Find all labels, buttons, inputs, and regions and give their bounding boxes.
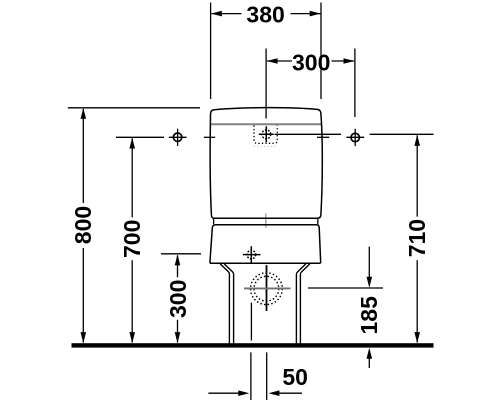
dim 185 label	[356, 296, 382, 335]
drain pipe line below floor left	[250, 352, 252, 400]
svg-text:300: 300	[292, 50, 330, 76]
horizontal reference line through flush level	[275, 133, 434, 135]
dim 700 arrowheads	[129, 138, 135, 149]
pedestal right inner edge	[296, 264, 305, 344]
drain hole inner dotted circle	[254, 276, 279, 301]
dim 300v arrowheads	[175, 254, 181, 265]
svg-text:300: 300	[165, 280, 191, 318]
dim 300 vertical line	[177, 255, 179, 342]
svg-text:380: 380	[246, 2, 284, 28]
extension line for 700 dim	[116, 136, 164, 138]
dim 800 label	[70, 206, 96, 244]
dim 800 arrowheads	[81, 108, 87, 119]
dim 700 line	[131, 138, 133, 342]
dim 710 arrowheads	[414, 135, 420, 146]
pedestal right outer edge	[300, 264, 309, 344]
dim 700 label	[119, 220, 145, 258]
dim 300 top extension lines	[266, 49, 355, 119]
flush button dashed box	[254, 125, 277, 143]
left wall-fixing crosshair	[173, 133, 181, 141]
right wall-fixing crosshair	[351, 133, 359, 141]
drain horizontal centerline (gray)	[244, 287, 291, 289]
svg-text:710: 710	[404, 219, 430, 257]
dim 380 line	[212, 13, 321, 15]
svg-text:185: 185	[356, 296, 382, 335]
svg-text:50: 50	[282, 364, 308, 390]
pedestal left outer edge	[220, 264, 229, 344]
tank-to-bowl joint right vertical	[317, 219, 319, 225]
drain vertical centerline	[266, 265, 268, 311]
extension line for 300v dim	[161, 253, 201, 255]
dim 185 lower arrow below floor	[368, 357, 370, 368]
extension line for 185 dim	[308, 287, 383, 289]
dim 710 label	[404, 219, 430, 257]
dim 800 line	[82, 109, 84, 343]
bowl flange bottom edge	[210, 262, 321, 264]
water supply line	[250, 303, 252, 341]
flush button crosshair ticks	[259, 126, 274, 142]
dim 50 arrows	[208, 392, 239, 394]
floor slab	[72, 343, 434, 347]
svg-text:700: 700	[119, 220, 145, 258]
dim 380 extension lines	[211, 3, 321, 100]
cistern tank outline	[210, 108, 322, 219]
dim 380 arrowheads	[211, 11, 222, 17]
top extension line for 800 dim	[68, 107, 200, 109]
dim 300 top arrowheads	[267, 58, 278, 64]
drain hole outer dotted circle	[251, 273, 283, 305]
dim 300 top line	[267, 60, 354, 62]
gray center dashed line at tank/flange joint	[265, 213, 267, 227]
dim 300v label	[165, 280, 191, 318]
bowl flange outline	[210, 225, 321, 263]
tank-to-bowl joint left vertical	[213, 219, 215, 225]
dim 710 line	[416, 135, 418, 342]
supply crosshair circle (dotted)	[247, 250, 256, 259]
flush button crosshair circle (dotted)	[262, 130, 271, 139]
short crossing segment right tank edge	[317, 136, 329, 138]
flush button lower faint dots	[254, 145, 279, 147]
pedestal left inner edge	[224, 264, 233, 344]
short crossing segment left tank edge	[204, 136, 215, 138]
drain pipe line below floor right	[266, 352, 268, 400]
supply crosshair ticks	[243, 246, 261, 262]
cistern lid seam (gray line)	[211, 123, 322, 125]
dim 185 upper line and arrow	[368, 247, 370, 278]
svg-text:800: 800	[70, 206, 96, 244]
